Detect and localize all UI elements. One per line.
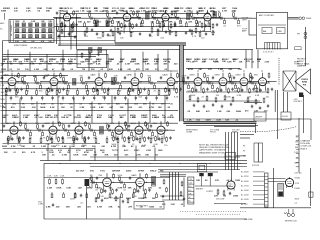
- capacitor: V19 damper 6W4 grid coupling: [150, 124, 152, 128]
- wire: mid bus 6: [158, 171, 218, 173]
- svg-text:270: 270: [149, 36, 153, 38]
- svg-text:15K: 15K: [239, 61, 243, 63]
- svg-text:39K: 39K: [120, 107, 124, 109]
- svg-text:820: 820: [22, 152, 26, 154]
- label: left of antenna box b: [242, 28, 248, 32]
- svg-text:68K: 68K: [129, 8, 133, 10]
- svg-text:220: 220: [92, 146, 96, 148]
- svg-text:39K: 39K: [163, 64, 167, 66]
- capacitor: V2 1st video IF 6CB6 grid coupling: [116, 11, 118, 15]
- svg-text:SYNC: SYNC: [134, 150, 140, 152]
- junction: V13 vert out 6K6 plate: [268, 81, 269, 82]
- svg-text:1500: 1500: [97, 38, 102, 40]
- fuse block: [309, 192, 313, 197]
- svg-text:220: 220: [174, 64, 178, 66]
- capacitor: V11 sync amp 6SN7 grid coupling: [212, 76, 214, 80]
- svg-text:1 2 3 4 5 6 7: 1 2 3 4 5 6 7: [263, 52, 274, 54]
- capacitor: V3 2nd video IF 6CB6 cathode bypass: [163, 24, 165, 28]
- capacitor: V8 video amp 6AH6 grid coupling: [124, 76, 126, 80]
- resistor: V4 3rd video IF 6CB6 cathode bias: [201, 22, 203, 28]
- svg-text:.001: .001: [138, 107, 143, 109]
- capacitor: V1 RF amp 6BC5 screen bypass: [75, 23, 77, 27]
- svg-text:.002: .002: [94, 10, 99, 12]
- svg-text:INTERLOCK: INTERLOCK: [285, 220, 298, 222]
- capacitor: V9 AGC keyer 6AU6 cathode bypass: [168, 89, 170, 93]
- capacitor: V17 vert blk 6J5 screen bypass: [127, 136, 129, 140]
- svg-text:CHASSIS: CHASSIS: [301, 140, 311, 143]
- resistor: bleeder 1: [217, 189, 219, 195]
- svg-text:68K: 68K: [155, 117, 159, 119]
- junction: V6 ratio det 6T8 plate: [59, 81, 60, 82]
- wire: V19 damper 6W4 plate riser: [160, 121, 162, 125]
- wire: stub into box bottom: [249, 34, 256, 36]
- svg-text:1M: 1M: [186, 59, 189, 61]
- filler parts: row3 lower band: [7, 136, 163, 144]
- svg-text:.05: .05: [38, 64, 42, 66]
- capacitor: V19 damper 6W4 cathode bypass: [158, 137, 160, 141]
- svg-text:18K: 18K: [222, 61, 226, 63]
- resistor: V9 AGC keyer 6AU6 grid leak: [176, 88, 178, 94]
- resistor: V17 vert blk 6J5 cathode bias: [113, 136, 115, 142]
- svg-text:PLUG: PLUG: [210, 132, 216, 134]
- svg-text:470K: 470K: [182, 76, 187, 78]
- svg-text:2.2K: 2.2K: [171, 204, 176, 206]
- right margin dark label block tube heading: [297, 59, 310, 68]
- resistor: V6 ratio det 6T8 screen dropper: [60, 73, 62, 79]
- svg-text:6BQ6: 6BQ6: [131, 123, 137, 125]
- svg-text:10K: 10K: [142, 61, 146, 63]
- wire: V8 video amp 6AH6 plate output: [139, 81, 149, 83]
- svg-text:1.2K: 1.2K: [254, 111, 259, 113]
- svg-text:1.2K: 1.2K: [151, 8, 156, 10]
- wire: V4 3rd video IF 6CB6 plate output: [211, 16, 221, 18]
- svg-text:1K: 1K: [22, 104, 25, 106]
- wire: V4 3rd video IF 6CB6 grid input: [194, 16, 204, 18]
- svg-text:18K: 18K: [145, 69, 149, 71]
- junction: V2 1st video IF 6CB6 plate: [132, 17, 133, 18]
- wire: V19 damper 6W4 grid-leak drop: [163, 136, 165, 140]
- wire: V18 horiz out 6BQ6 grid input: [125, 129, 135, 131]
- capacitor: V7 1st audio 6AV6 grid coupling: [88, 76, 90, 80]
- svg-text:6.8K: 6.8K: [46, 207, 51, 209]
- svg-text:330: 330: [39, 90, 43, 92]
- svg-text:27K: 27K: [215, 180, 219, 182]
- coupling network row1 f: [190, 11, 199, 28]
- resistor: sync depth 2: [197, 97, 199, 103]
- power takeoff label stack: [241, 172, 265, 206]
- wire: drop from antenna box: [248, 20, 250, 35]
- wire: heater bus above row2: [3, 70, 179, 72]
- capacitor: V13 vert out 6K6 screen bypass: [271, 88, 273, 92]
- wire: audio-power comb 4: [178, 172, 180, 200]
- wire: band start drop: [114, 27, 116, 43]
- value row: row3 head fill: [3, 116, 172, 119]
- wire: right sound bus2: [186, 100, 260, 102]
- capacitor: sync depth 3: [212, 103, 214, 107]
- wire: V21 audio drv 6AV6 grid input: [126, 181, 136, 183]
- resistor: sync depth 6: [232, 96, 234, 102]
- svg-text:4.7M: 4.7M: [7, 60, 12, 63]
- wire: V13 vert out 6K6 plate output: [267, 81, 277, 83]
- capacitor: V2 1st video IF 6CB6 screen bypass: [135, 23, 137, 27]
- wire: V11 sync amp 6SN7 grid input: [209, 81, 219, 83]
- svg-text:8.2K: 8.2K: [227, 61, 232, 63]
- wire: V17 vert blk 6J5 grid-leak drop: [121, 136, 123, 140]
- filler parts: row2 second lower band: [10, 96, 168, 101]
- wire: V6 ratio det 6T8 plate riser: [53, 73, 55, 77]
- svg-text:220: 220: [77, 207, 81, 209]
- label row: audio row designations: [76, 169, 163, 172]
- svg-text:27K: 27K: [85, 59, 89, 61]
- wire: interstage drop r2-r3 2: [36, 102, 38, 124]
- wire: upper-left y63: [3, 62, 78, 64]
- junction: V11 sync amp 6SN7 plate: [228, 81, 229, 82]
- wire: V21 audio drv 6AV6 grid-leak drop: [142, 188, 144, 191]
- svg-text:470: 470: [11, 106, 15, 109]
- linearity control box: [281, 112, 291, 120]
- svg-text:.25: .25: [153, 90, 157, 92]
- wire: V16 horiz ctl 6SN7 plate riser: [78, 121, 80, 125]
- svg-text:21EP4: 21EP4: [301, 78, 308, 81]
- resistor audio divider 0: [49, 178, 51, 184]
- tuner coil T1-5a: [42, 23, 45, 26]
- svg-text:6.8K: 6.8K: [99, 107, 104, 109]
- svg-text:39K: 39K: [78, 22, 82, 24]
- resistor: V1 RF amp 6BC5 screen dropper: [73, 10, 75, 16]
- focus control box B: [258, 143, 262, 162]
- svg-text:6AU6: 6AU6: [4, 74, 10, 77]
- label: to crt base: [232, 130, 240, 134]
- junction: V19 damper 6W4 plate: [167, 130, 168, 131]
- svg-text:330: 330: [13, 61, 17, 63]
- capacitor: V12 vert osc 6SN7 cathode bypass: [241, 89, 243, 93]
- svg-text:39K: 39K: [66, 207, 70, 209]
- wire: V13 vert out 6K6 grid input: [249, 81, 259, 83]
- svg-text:1K: 1K: [17, 69, 20, 71]
- svg-text:4.7M: 4.7M: [111, 145, 116, 148]
- svg-text:3.3M: 3.3M: [47, 188, 52, 190]
- resistor: power corner 4: [180, 191, 182, 197]
- tube V3 2nd video IF 6CB6: [162, 12, 169, 22]
- value row: power corner: [162, 204, 184, 206]
- svg-text:15K: 15K: [225, 120, 229, 122]
- wire: HV terminal column: [298, 118, 300, 172]
- tube socket pins under box: [265, 43, 281, 50]
- capacitor: V6 ratio det 6T8 screen bypass: [62, 88, 64, 92]
- wire: V14 horiz AFC 6AL5 cathode drop: [10, 136, 12, 141]
- wire: audio box left edge: [43, 163, 45, 219]
- wire: interstage drop r1-r2 0: [7, 50, 9, 71]
- label row: second tube row designations: [2, 58, 262, 63]
- terminal board ladder: [265, 173, 269, 207]
- svg-text:68: 68: [109, 36, 112, 38]
- svg-text:.02: .02: [257, 61, 261, 63]
- svg-text:1M: 1M: [70, 32, 73, 34]
- capacitor: audio interior b: [122, 200, 124, 204]
- wire: V10 sync sep 6SN7 grid-leak drop: [200, 87, 202, 91]
- wire: CRT neck lead a: [283, 92, 285, 112]
- svg-text:2.2K: 2.2K: [26, 10, 31, 12]
- label: yoke note: [294, 62, 300, 66]
- svg-text:.25: .25: [70, 107, 74, 109]
- svg-text:B+ 175V: B+ 175V: [241, 185, 249, 187]
- tube V10 sync sep 6SN7: [194, 76, 202, 87]
- svg-text:SEL: SEL: [152, 198, 157, 200]
- capacitor: V16 horiz ctl 6SN7 screen bypass: [87, 136, 89, 140]
- svg-text:4.7M: 4.7M: [107, 21, 112, 24]
- wire: mid bus 5: [158, 169, 240, 171]
- svg-text:.003: .003: [228, 69, 233, 71]
- wire: V6 ratio det 6T8 grid input: [40, 81, 50, 83]
- tube V17 vert blk 6J5: [115, 125, 123, 136]
- wire: line above sync row: [3, 122, 179, 124]
- svg-text:6AU6: 6AU6: [163, 74, 169, 77]
- svg-text:8.2K: 8.2K: [174, 97, 179, 99]
- wire: V15 horiz osc 6SN7 grid-leak drop: [55, 136, 57, 140]
- capacitor: V21 audio drv 6AV6 screen bypass: [148, 188, 150, 192]
- wire: focus coil drop: [277, 112, 279, 139]
- resistor: sync depth 5: [224, 95, 226, 101]
- tube V1 RF amp 6BC5: [63, 12, 70, 22]
- svg-text:150K: 150K: [109, 59, 114, 61]
- svg-text:5.6K: 5.6K: [38, 117, 43, 119]
- wire: V12 vert osc 6SN7 plate riser: [243, 73, 245, 77]
- svg-text:15K: 15K: [249, 76, 253, 78]
- coupling network row2 h: [206, 76, 216, 93]
- resistor: V14 horiz AFC 6AL5 grid leak: [19, 136, 21, 142]
- svg-text:220: 220: [114, 155, 118, 157]
- svg-text:220: 220: [266, 97, 270, 99]
- resistor: V10 sync sep 6SN7 grid leak: [203, 88, 205, 94]
- tube V14 horiz AFC 6AL5: [10, 125, 18, 136]
- label plate: yoke conn: [225, 153, 236, 160]
- wire: antenna twin lead b: [288, 18, 299, 20]
- wire: V16 horiz ctl 6SN7 cathode drop: [75, 136, 77, 141]
- svg-text:33: 33: [26, 117, 29, 119]
- svg-text:.047: .047: [78, 187, 83, 190]
- wire: filter line: [273, 168, 275, 208]
- wire: V12 vert osc 6SN7 cathode drop: [240, 87, 242, 92]
- svg-text:330: 330: [25, 69, 29, 71]
- svg-text:2.2M: 2.2M: [41, 104, 46, 106]
- wire: tuner row line 2: [14, 32, 54, 34]
- svg-text:18K: 18K: [122, 146, 126, 148]
- svg-text:.047: .047: [93, 154, 98, 157]
- svg-text:H DR: H DR: [146, 150, 151, 152]
- svg-text:1M: 1M: [295, 142, 298, 144]
- svg-text:47: 47: [4, 103, 7, 106]
- svg-text:560K: 560K: [206, 120, 212, 122]
- capacitor: V9 AGC keyer 6AU6 screen bypass: [179, 88, 181, 92]
- power labels right: [295, 172, 303, 191]
- svg-text:18K: 18K: [108, 207, 112, 209]
- label row: third tube row designations: [2, 114, 174, 119]
- svg-text:3.9K: 3.9K: [114, 76, 119, 78]
- resistor: V7 1st audio 6AV6 grid leak: [104, 88, 106, 94]
- wire: V14 horiz AFC 6AL5 plate riser: [13, 121, 15, 125]
- resistor: audio load: [74, 192, 76, 198]
- svg-text:18K: 18K: [145, 155, 149, 157]
- svg-text:.02: .02: [80, 203, 84, 205]
- capacitor: sync depth 1: [193, 104, 195, 108]
- svg-text:.05: .05: [70, 69, 74, 71]
- resistor: V21 audio drv 6AV6 cathode bias: [134, 188, 136, 194]
- label plate: focus adj: [197, 164, 206, 172]
- svg-text:82: 82: [168, 107, 171, 109]
- wire: second distribution: [3, 55, 97, 57]
- svg-text:82K: 82K: [109, 69, 113, 71]
- svg-text:6SN7: 6SN7: [45, 123, 51, 125]
- resistor: V12 vert osc 6SN7 cathode bias: [238, 87, 240, 93]
- svg-text:82: 82: [131, 146, 134, 148]
- resistor: V16 horiz ctl 6SN7 cathode bias: [73, 136, 75, 142]
- tube V2 1st video IF 6CB6: [123, 12, 131, 23]
- resistor: vert-out cluster 2: [255, 99, 257, 105]
- wire: V9 AGC keyer 6AU6 cathode drop: [167, 87, 169, 92]
- svg-text:6AV6: 6AV6: [126, 169, 132, 172]
- svg-text:1.2K: 1.2K: [217, 111, 222, 113]
- svg-text:B+ 225V: B+ 225V: [241, 176, 249, 178]
- wire: V7 1st audio 6AV6 plate riser: [98, 73, 100, 77]
- svg-text:39K: 39K: [104, 155, 108, 157]
- capacitor: V4 3rd video IF 6CB6 grid coupling: [196, 11, 198, 15]
- wire: V18 horiz out 6BQ6 plate output: [143, 129, 153, 131]
- label row: mid bus callouts: [46, 149, 163, 152]
- tube V15 horiz osc 6SN7: [49, 125, 57, 136]
- svg-text:68K: 68K: [232, 59, 236, 61]
- svg-text:47: 47: [52, 68, 55, 71]
- svg-text:.05: .05: [170, 104, 174, 106]
- svg-text:.05: .05: [0, 65, 3, 67]
- svg-text:RF TUNER: RF TUNER: [11, 25, 13, 36]
- svg-text:18K: 18K: [173, 11, 177, 13]
- wire: audio-power comb 1: [169, 172, 171, 200]
- wire: V1 RF amp 6BC5 plate output: [71, 16, 81, 18]
- tone network box: [134, 202, 164, 210]
- svg-text:.02: .02: [79, 104, 83, 106]
- tuner coil T1-3a: [29, 23, 32, 26]
- svg-text:.25: .25: [129, 10, 133, 12]
- svg-text:.05: .05: [295, 157, 298, 159]
- svg-text:33: 33: [159, 207, 162, 209]
- wire: V5 sound IF 6AU6 cathode drop: [8, 87, 10, 92]
- svg-text:.25: .25: [32, 146, 36, 148]
- tube V9 AGC keyer 6AU6: [167, 76, 175, 87]
- grid cap leads row1: [66, 11, 208, 14]
- svg-text:6.8K: 6.8K: [100, 11, 105, 13]
- resistor audio divider 2: [62, 178, 64, 184]
- svg-text:6.3V AC: 6.3V AC: [295, 172, 303, 175]
- wire: vert-out link: [244, 101, 262, 103]
- svg-text:560K: 560K: [191, 95, 196, 97]
- wire: shielded cable drop at right end: [254, 124, 256, 133]
- svg-text:82: 82: [179, 22, 182, 24]
- svg-text:1M: 1M: [81, 8, 84, 10]
- svg-text:39K: 39K: [87, 188, 91, 190]
- junction: V4 3rd video IF 6CB6 plate: [213, 17, 214, 18]
- label row: row3 under-values: [4, 151, 105, 154]
- svg-text:6.8K: 6.8K: [83, 155, 88, 157]
- svg-text:1M: 1M: [109, 117, 112, 119]
- svg-text:27K: 27K: [206, 76, 210, 78]
- svg-text:FIELD: FIELD: [150, 170, 157, 172]
- svg-text:.05: .05: [187, 111, 191, 113]
- wire: V8 video amp 6AH6 grid-leak drop: [137, 87, 139, 91]
- svg-text:1M: 1M: [167, 61, 170, 63]
- svg-text:1M: 1M: [10, 64, 13, 66]
- wire: vertical comb line 5: [236, 132, 238, 170]
- svg-text:T110: T110: [100, 170, 106, 172]
- svg-text:8.2K: 8.2K: [200, 31, 205, 33]
- label: left of antenna box a: [242, 17, 249, 21]
- wire: CRT neck lead b: [287, 92, 289, 112]
- wire: V19 damper 6W4 grid input: [147, 129, 157, 131]
- coupling network row1 d: [151, 11, 161, 28]
- wire: b-boost line: [214, 126, 255, 128]
- svg-text:3.3M: 3.3M: [62, 155, 67, 157]
- wire: right sound bus: [186, 91, 268, 93]
- value row: audio under: [46, 206, 163, 209]
- capacitor: sync depth 4: [221, 105, 223, 109]
- svg-text:560K: 560K: [0, 99, 5, 101]
- svg-text:220: 220: [128, 107, 132, 109]
- svg-text:MEASURED WITH VTVM.: MEASURED WITH VTVM.: [199, 151, 225, 154]
- capacitor: row1 depth 2: [107, 33, 109, 37]
- junction dots on main buses: [11, 18, 262, 164]
- wire: V5 sound IF 6AU6 plate riser: [11, 73, 13, 77]
- resistor: power corner 2: [166, 187, 168, 193]
- wire: V9 AGC keyer 6AU6 grid-leak drop: [173, 87, 175, 91]
- resistor: V11 sync amp 6SN7 screen dropper: [229, 73, 231, 79]
- dashed cable curve to CRT: [240, 127, 297, 132]
- resistor: V4 3rd video IF 6CB6 screen dropper: [213, 10, 215, 16]
- svg-text:.02: .02: [100, 69, 104, 71]
- value row: row2 under2: [2, 106, 171, 109]
- svg-text:560K: 560K: [87, 64, 93, 66]
- resistor: V1 RF amp 6BC5 cathode bias: [61, 22, 63, 28]
- resistor: sync depth 4: [215, 97, 217, 103]
- resistor: V13 vert out 6K6 screen dropper: [268, 73, 270, 79]
- wire: box pin drop 1: [245, 50, 247, 69]
- resistor: row1 depth 8: [191, 29, 193, 35]
- svg-text:68: 68: [119, 90, 122, 92]
- capacitor: IF bypass 4: [189, 29, 191, 33]
- svg-text:.002: .002: [77, 117, 82, 119]
- tube V21 audio drv 6AV6: [136, 177, 145, 188]
- coupling network row2 b: [34, 76, 44, 93]
- svg-text:.001: .001: [87, 207, 92, 209]
- tuner coil T1-4c: [35, 35, 38, 38]
- capacitor: row1 depth 1: [96, 32, 98, 36]
- svg-text:6V6: 6V6: [99, 175, 104, 177]
- wire: V21 audio drv 6AV6 cathode drop: [136, 188, 138, 192]
- svg-text:UNB: UNB: [278, 31, 283, 33]
- resistor: V18 horiz out 6BQ6 cathode bias: [133, 136, 135, 142]
- svg-text:82K: 82K: [148, 76, 152, 78]
- svg-text:.047: .047: [109, 106, 114, 109]
- tuner coil T1-1c: [16, 35, 19, 38]
- svg-text:27K: 27K: [44, 61, 48, 63]
- svg-text:330: 330: [295, 147, 298, 149]
- wire: V3 2nd video IF 6CB6 plate output: [169, 16, 179, 18]
- svg-text:47K: 47K: [130, 60, 134, 63]
- resistor: V6 ratio det 6T8 grid leak: [59, 88, 61, 94]
- resistor: V20 audio out 6V6 screen dropper: [113, 173, 115, 179]
- svg-text:330: 330: [31, 104, 35, 106]
- AC interlock plug: [284, 209, 295, 217]
- svg-text:500K: 500K: [118, 175, 123, 177]
- wire: rect to transformer b: [268, 181, 286, 183]
